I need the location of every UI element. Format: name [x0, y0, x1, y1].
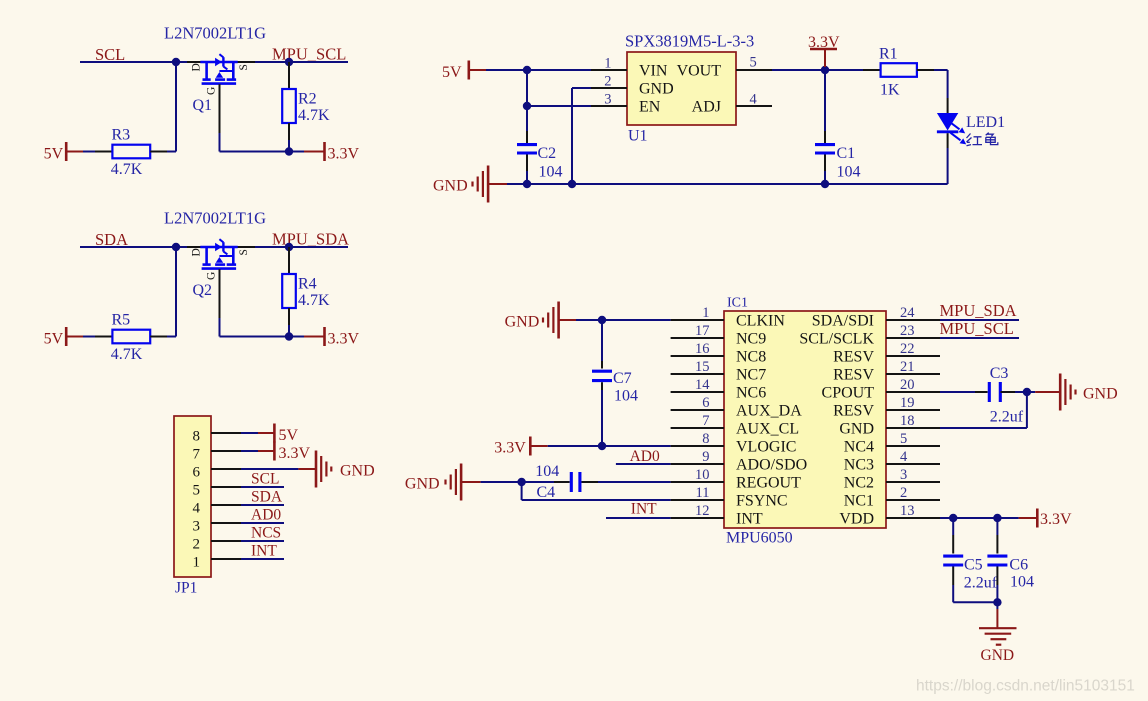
svg-text:ADJ: ADJ — [692, 98, 721, 115]
wire — [83, 151, 95, 153]
transistor Q1 (L2N7002LT1G) — [191, 54, 251, 114]
pin 16 of IC1 (NC8) — [671, 355, 724, 357]
svg-text:IC1: IC1 — [727, 296, 748, 311]
wire — [255, 246, 348, 248]
pin 2 of R4 — [288, 308, 290, 325]
junction — [598, 442, 606, 450]
junction — [568, 180, 576, 188]
pin 11 of IC1 (FSYNC) — [671, 499, 724, 501]
capacitor C3 — [975, 365, 1024, 425]
wire (GND stub) — [1027, 391, 1035, 393]
pin 24 of IC1 (SDA/SDI) — [886, 319, 940, 321]
svg-text:2: 2 — [604, 74, 611, 90]
wire — [288, 140, 290, 152]
wire — [176, 61, 187, 63]
pin 21 of IC1 (RESV) — [886, 373, 940, 375]
junction — [949, 514, 957, 522]
svg-text:JP1: JP1 — [175, 579, 197, 596]
svg-text:MPU_SDA: MPU_SDA — [940, 301, 1017, 320]
wire — [80, 246, 176, 248]
junction — [285, 58, 293, 66]
wire (GND stub) — [559, 319, 576, 321]
wire (3.3V stub) — [304, 151, 325, 153]
wire (3.3V stub) — [304, 336, 325, 338]
pin 19 of IC1 (RESV) — [886, 409, 940, 411]
pin 3 of IC1 (NC2) — [886, 481, 940, 483]
pin D of Q1 — [187, 61, 206, 63]
svg-text:C2: C2 — [538, 145, 557, 162]
pin 2 of R1 — [917, 69, 934, 71]
wire — [576, 319, 671, 321]
svg-text:104: 104 — [539, 163, 563, 180]
wire (3.3V stub) — [530, 445, 547, 447]
wire — [526, 171, 528, 184]
wire — [571, 88, 573, 184]
power port 3.3V — [529, 437, 532, 456]
wire — [940, 517, 1019, 519]
pin 1 of R3 — [95, 151, 112, 153]
pin 6 of JP1 — [211, 468, 241, 470]
wire — [167, 151, 176, 153]
svg-text:C6: C6 — [1009, 557, 1028, 574]
wire — [481, 481, 522, 483]
wire — [83, 336, 95, 338]
svg-text:5V: 5V — [44, 331, 64, 348]
pin 10 of IC1 (REGOUT) — [671, 481, 724, 483]
svg-text:G: G — [206, 87, 218, 95]
svg-text:AD0: AD0 — [251, 506, 281, 523]
svg-text:4.7K: 4.7K — [111, 161, 143, 178]
wire — [947, 148, 949, 184]
connector JP1 body — [174, 416, 211, 577]
svg-text:3: 3 — [193, 518, 201, 534]
pin 17 of IC1 (NC9) — [671, 337, 724, 339]
pin 1 of R2 — [288, 62, 290, 89]
svg-text:4.7K: 4.7K — [298, 107, 330, 124]
wire — [288, 325, 290, 337]
svg-text:9: 9 — [702, 449, 709, 465]
wire — [1015, 391, 1027, 393]
wire — [486, 69, 591, 71]
svg-text:17: 17 — [695, 323, 710, 339]
svg-text:GND: GND — [340, 463, 375, 480]
pin 3 of JP1 — [211, 522, 241, 524]
wire — [1026, 392, 1028, 428]
pin 22 of IC1 (RESV) — [886, 355, 940, 357]
wire — [522, 499, 671, 501]
wire (5V stub) — [258, 432, 274, 434]
pin 2 of U1 (GND) — [591, 87, 627, 89]
wire — [940, 337, 1019, 339]
pin 13 of IC1 (VDD) — [886, 517, 940, 519]
pin 1 of JP1 — [211, 558, 241, 560]
wire — [572, 87, 591, 89]
LED LED1 — [937, 98, 1005, 148]
svg-text:23: 23 — [900, 323, 915, 339]
power port 5V — [65, 327, 68, 346]
svg-text:3.3V: 3.3V — [328, 331, 360, 348]
svg-text:7: 7 — [702, 413, 709, 429]
svg-text:REGOUT: REGOUT — [736, 474, 801, 491]
svg-text:5V: 5V — [279, 427, 299, 444]
svg-text:14: 14 — [695, 377, 710, 393]
power port 3.3V — [323, 327, 326, 346]
capacitor C2 — [517, 131, 563, 180]
svg-text:D: D — [191, 248, 203, 256]
svg-text:SCL/SCLK: SCL/SCLK — [799, 330, 874, 347]
pin 7 of JP1 — [211, 450, 241, 452]
svg-text:R5: R5 — [112, 312, 131, 329]
capacitor C5 — [943, 518, 998, 592]
wire — [175, 62, 177, 152]
svg-text:U1: U1 — [628, 128, 648, 145]
wire — [175, 247, 177, 337]
svg-text:5: 5 — [193, 482, 201, 498]
svg-text:AD0: AD0 — [630, 448, 660, 465]
wire — [548, 445, 671, 447]
svg-text:8: 8 — [702, 431, 709, 447]
svg-text:4: 4 — [900, 449, 908, 465]
pin 2 of R5 — [150, 336, 167, 338]
svg-text:R2: R2 — [298, 91, 317, 108]
junction — [172, 58, 180, 66]
pin 7 of IC1 (AUX_CL) — [671, 427, 724, 429]
svg-text:104: 104 — [1010, 573, 1034, 590]
wire — [606, 517, 671, 519]
svg-text:10: 10 — [695, 467, 710, 483]
svg-text:GND: GND — [505, 314, 540, 331]
svg-text:C5: C5 — [964, 557, 983, 574]
svg-text:5V: 5V — [44, 146, 64, 163]
svg-text:D: D — [191, 63, 203, 71]
pin 14 of IC1 (NC6) — [671, 391, 724, 393]
svg-text:NC8: NC8 — [736, 348, 766, 365]
svg-text:GND: GND — [433, 178, 468, 195]
pin 15 of IC1 (NC7) — [671, 373, 724, 375]
svg-text:NC2: NC2 — [844, 474, 874, 491]
svg-text:R1: R1 — [879, 45, 898, 62]
svg-text:L2N7002LT1G: L2N7002LT1G — [164, 209, 266, 228]
svg-text:20: 20 — [900, 377, 915, 393]
svg-text:LED1: LED1 — [966, 114, 1005, 131]
wire — [289, 151, 304, 153]
svg-text:8: 8 — [193, 428, 201, 444]
wire (5V stub) — [469, 69, 486, 71]
junction — [821, 66, 829, 74]
wire — [940, 319, 1019, 321]
svg-text:GND: GND — [839, 420, 874, 437]
junction — [285, 332, 293, 340]
wire — [940, 427, 1027, 429]
pin 3 of U1 (EN) — [591, 105, 627, 107]
svg-text:FSYNC: FSYNC — [736, 492, 788, 509]
svg-text:1: 1 — [702, 305, 709, 321]
wire — [241, 540, 284, 542]
wire — [241, 432, 258, 434]
svg-text:SDA: SDA — [251, 488, 283, 505]
svg-text:21: 21 — [900, 359, 915, 375]
pin 1 of R5 — [95, 336, 112, 338]
svg-text:3.3V: 3.3V — [328, 146, 360, 163]
capacitor C6 — [987, 518, 1034, 590]
svg-text:3.3V: 3.3V — [279, 445, 311, 462]
svg-text:16: 16 — [695, 341, 710, 357]
svg-text:104: 104 — [535, 463, 559, 480]
pin 4 of U1 (ADJ) — [736, 105, 772, 107]
svg-text:3: 3 — [604, 92, 611, 108]
pin 9 of IC1 (ADO/SDO) — [671, 463, 724, 465]
wire — [241, 504, 284, 506]
junction — [285, 243, 293, 251]
svg-text:3.3V: 3.3V — [1040, 511, 1072, 528]
svg-text:RESV: RESV — [833, 348, 874, 365]
svg-text:GND: GND — [405, 476, 440, 493]
svg-text:GND: GND — [1083, 386, 1118, 403]
wire — [507, 183, 948, 185]
wire — [220, 336, 290, 338]
svg-text:6: 6 — [193, 464, 201, 480]
wire — [616, 463, 671, 465]
svg-text:VIN: VIN — [639, 62, 668, 79]
svg-text:VDD: VDD — [839, 510, 874, 527]
wire (3.3V stub) — [258, 450, 274, 452]
junction — [1023, 388, 1031, 396]
resistor R1 — [881, 63, 917, 77]
value label 红色 (red) for LED1 — [967, 133, 998, 146]
svg-text:3: 3 — [900, 467, 907, 483]
junction — [523, 66, 531, 74]
resistor R4 — [282, 274, 296, 308]
svg-text:R3: R3 — [112, 127, 131, 144]
svg-text:MPU6050: MPU6050 — [726, 530, 793, 547]
power port 3.3V (top) — [810, 48, 837, 51]
svg-text:SPX3819M5-L-3-3: SPX3819M5-L-3-3 — [625, 32, 754, 51]
svg-text:INT: INT — [251, 542, 277, 559]
junction — [172, 243, 180, 251]
svg-text:SDA/SDI: SDA/SDI — [812, 312, 874, 329]
pin 20 of IC1 (CPOUT) — [886, 391, 940, 393]
wire — [947, 70, 949, 98]
svg-text:RESV: RESV — [833, 366, 874, 383]
wire — [220, 151, 290, 153]
svg-text:MPU_SDA: MPU_SDA — [272, 230, 349, 249]
wire (5V stub) — [66, 336, 83, 338]
svg-text:3.3V: 3.3V — [494, 440, 526, 457]
pin 5 of JP1 — [211, 486, 241, 488]
pin 1 of R4 — [288, 247, 290, 274]
svg-text:GND: GND — [981, 647, 1015, 664]
wire — [241, 468, 298, 470]
svg-text:AUX_CL: AUX_CL — [736, 420, 799, 437]
junction — [993, 514, 1001, 522]
svg-text:22: 22 — [900, 341, 915, 357]
svg-text:NC3: NC3 — [844, 456, 874, 473]
voltage regulator U1 body — [627, 52, 736, 125]
svg-text:3.3V: 3.3V — [808, 34, 840, 51]
svg-text:2: 2 — [193, 536, 201, 552]
wire (3.3V stub) — [1019, 517, 1038, 519]
svg-text:12: 12 — [695, 503, 710, 519]
wire — [772, 69, 863, 71]
pin 5 of IC1 (NC4) — [886, 445, 940, 447]
svg-text:C1: C1 — [837, 145, 856, 162]
pin 1 of U1 (VIN) — [591, 69, 627, 71]
wire — [598, 481, 671, 483]
junction — [285, 147, 293, 155]
svg-text:104: 104 — [837, 163, 861, 180]
svg-text:SCL: SCL — [251, 470, 279, 487]
svg-text:G: G — [206, 272, 218, 280]
svg-text:1K: 1K — [880, 81, 900, 98]
wire (GND stub) — [461, 481, 481, 483]
svg-text:VLOGIC: VLOGIC — [736, 438, 796, 455]
wire — [241, 558, 284, 560]
svg-text:https://blog.csdn.net/lin51031: https://blog.csdn.net/lin5103151 — [916, 678, 1135, 695]
pin 2 of JP1 — [211, 540, 241, 542]
wire — [219, 133, 221, 152]
svg-text:NC7: NC7 — [736, 366, 766, 383]
svg-text:AUX_DA: AUX_DA — [736, 402, 802, 419]
svg-text:4.7K: 4.7K — [111, 346, 143, 363]
capacitor C4 — [522, 463, 598, 501]
ground (earth) GND — [979, 602, 1017, 664]
svg-text:INT: INT — [631, 500, 657, 517]
svg-text:MPU_SCL: MPU_SCL — [272, 45, 346, 64]
power port GND — [1059, 374, 1062, 411]
svg-text:NC1: NC1 — [844, 492, 874, 509]
pin 4 of IC1 (NC3) — [886, 463, 940, 465]
svg-text:NCS: NCS — [251, 524, 281, 541]
capacitor C1 — [815, 70, 861, 180]
wire — [241, 486, 284, 488]
wire — [953, 601, 997, 603]
svg-text:MPU_SCL: MPU_SCL — [940, 319, 1014, 338]
svg-text:L2N7002LT1G: L2N7002LT1G — [164, 24, 266, 43]
svg-text:Q1: Q1 — [193, 97, 213, 114]
power port 5V — [273, 424, 276, 443]
svg-text:2: 2 — [900, 485, 907, 501]
wire — [219, 318, 221, 337]
junction — [598, 316, 606, 324]
svg-text:R4: R4 — [298, 276, 317, 293]
svg-text:S: S — [238, 64, 250, 70]
svg-text:5V: 5V — [442, 64, 462, 81]
wire — [241, 450, 258, 452]
svg-text:2.2uf: 2.2uf — [990, 408, 1024, 425]
transistor Q2 (L2N7002LT1G) — [191, 239, 251, 299]
junction — [821, 180, 829, 188]
power port 3.3V — [323, 142, 326, 161]
wire — [952, 585, 954, 602]
svg-text:13: 13 — [900, 503, 915, 519]
wire (5V stub) — [66, 151, 83, 153]
pin S of Q1 — [233, 61, 255, 63]
svg-text:C7: C7 — [613, 370, 632, 387]
wire — [176, 246, 187, 248]
pin D of Q2 — [187, 246, 206, 248]
junction — [993, 598, 1001, 606]
resistor R2 — [282, 89, 296, 123]
pin G of Q2 — [219, 269, 221, 318]
power port 3.3V — [1036, 509, 1039, 528]
power port 5V — [467, 61, 470, 80]
pin 4 of JP1 — [211, 504, 241, 506]
pin 2 of IC1 (NC1) — [886, 499, 940, 501]
wire — [527, 105, 591, 107]
svg-text:4.7K: 4.7K — [298, 292, 330, 309]
pin 1 of IC1 (CLKIN) — [671, 319, 724, 321]
svg-text:GND: GND — [639, 80, 674, 97]
wire — [167, 336, 176, 338]
resistor R5 — [112, 330, 150, 344]
svg-text:C4: C4 — [537, 484, 556, 501]
svg-text:CLKIN: CLKIN — [736, 312, 785, 329]
svg-text:1: 1 — [193, 554, 201, 570]
wire — [255, 61, 348, 63]
wire — [996, 585, 998, 602]
svg-text:24: 24 — [900, 305, 915, 321]
wire — [934, 69, 948, 71]
wire — [289, 336, 304, 338]
svg-text:18: 18 — [900, 413, 915, 429]
svg-text:VOUT: VOUT — [677, 62, 722, 79]
junction — [517, 478, 525, 486]
wire (GND stub) — [488, 183, 507, 185]
svg-text:4: 4 — [193, 500, 201, 516]
pin S of Q2 — [233, 246, 255, 248]
pin 8 of IC1 (VLOGIC) — [671, 445, 724, 447]
svg-text:11: 11 — [696, 485, 710, 501]
power port GND — [315, 451, 318, 488]
svg-text:RESV: RESV — [833, 402, 874, 419]
pin 12 of IC1 (INT) — [671, 517, 724, 519]
svg-text:7: 7 — [193, 446, 201, 462]
wire — [80, 61, 176, 63]
power port 3.3V — [273, 442, 276, 461]
power port 5V — [65, 142, 68, 161]
wire — [521, 482, 523, 500]
wire — [601, 390, 603, 446]
wire — [940, 391, 975, 393]
svg-text:1: 1 — [604, 56, 611, 72]
IC IC1 MPU6050 body — [724, 311, 886, 528]
pin 8 of JP1 — [211, 432, 241, 434]
pin 5 of U1 (VOUT) — [736, 69, 772, 71]
wire — [824, 171, 826, 184]
wire — [526, 70, 528, 131]
resistor R3 — [112, 145, 150, 159]
svg-text:S: S — [238, 249, 250, 255]
svg-text:Q2: Q2 — [193, 282, 213, 299]
capacitor C7 — [592, 320, 638, 404]
pin G of Q1 — [219, 84, 221, 133]
svg-text:4: 4 — [750, 92, 758, 108]
svg-text:NC6: NC6 — [736, 384, 766, 401]
junction — [523, 180, 531, 188]
pin 6 of IC1 (AUX_DA) — [671, 409, 724, 411]
svg-text:NC4: NC4 — [844, 438, 874, 455]
pin 18 of IC1 (GND) — [886, 427, 940, 429]
svg-text:CPOUT: CPOUT — [822, 384, 875, 401]
svg-text:EN: EN — [639, 98, 661, 115]
pin 23 of IC1 (SCL/SCLK) — [886, 337, 940, 339]
svg-text:15: 15 — [695, 359, 710, 375]
svg-text:5: 5 — [900, 431, 907, 447]
svg-text:ADO/SDO: ADO/SDO — [736, 456, 807, 473]
svg-text:5: 5 — [750, 55, 757, 71]
svg-text:NC9: NC9 — [736, 330, 766, 347]
wire (GND stub) — [298, 468, 316, 470]
